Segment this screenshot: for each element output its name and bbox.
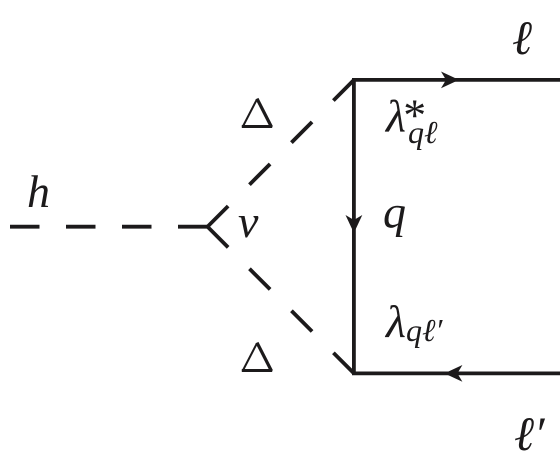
svg-text:qℓ: qℓ: [408, 114, 438, 150]
svg-text:qℓ′: qℓ′: [406, 312, 443, 348]
svg-text:q: q: [383, 187, 406, 238]
svg-text:v: v: [238, 196, 259, 247]
svg-text:ℓ′: ℓ′: [514, 408, 546, 461]
svg-text:ℓ: ℓ: [512, 12, 532, 65]
svg-text:h: h: [27, 166, 50, 217]
svg-text:λ: λ: [384, 296, 406, 347]
